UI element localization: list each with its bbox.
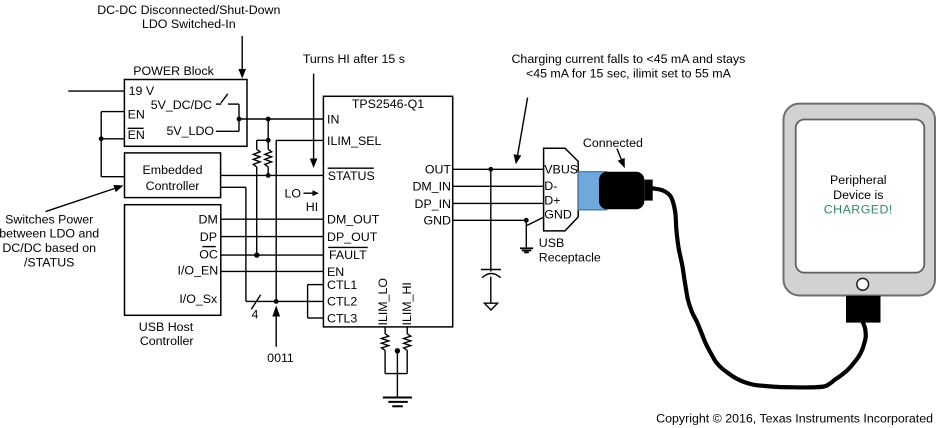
svg-text:D+: D+ bbox=[544, 193, 560, 207]
block U3 Embedded Controller bbox=[125, 153, 221, 198]
arrow from charging note to OUT wire bbox=[514, 98, 528, 165]
wire DP bbox=[221, 236, 324, 238]
svg-text:0011: 0011 bbox=[267, 351, 294, 365]
label USB Host Controller bbox=[139, 320, 194, 348]
resistor R3 ILIM_LO bbox=[382, 327, 389, 374]
svg-text:5V_DC/DC: 5V_DC/DC bbox=[151, 98, 212, 112]
ground GND2 (ILIM resistors) bbox=[383, 398, 412, 407]
tablet screen bbox=[796, 120, 925, 273]
wire ILIM_SEL branch bbox=[276, 140, 323, 301]
IC U1 TPS2546-Q1 bbox=[323, 96, 452, 327]
svg-text:LDO Switched-In: LDO Switched-In bbox=[142, 17, 236, 31]
svg-text:ILIM_SEL: ILIM_SEL bbox=[327, 134, 382, 148]
wire FAULT/OC bbox=[221, 254, 324, 256]
svg-text:EN: EN bbox=[128, 128, 145, 142]
wire 5V to IN bbox=[239, 118, 323, 120]
wire EN-bar bbox=[101, 138, 124, 140]
tablet connector bbox=[846, 296, 881, 323]
pin label FAULT-bar bbox=[328, 247, 368, 261]
node 5V output junction bbox=[237, 117, 242, 122]
note: Charging current falls to <45 mA bbox=[511, 52, 745, 81]
svg-text:Connected: Connected bbox=[583, 136, 643, 150]
svg-text:EN: EN bbox=[327, 265, 344, 279]
wire DM bbox=[221, 218, 324, 220]
node GND junction bbox=[524, 218, 529, 223]
USB receptacle J1 bbox=[544, 148, 579, 231]
svg-text:EN: EN bbox=[128, 107, 145, 121]
svg-text:POWER Block: POWER Block bbox=[133, 64, 214, 78]
svg-text:DC/DC based on: DC/DC based on bbox=[2, 241, 96, 255]
svg-text:CTL2: CTL2 bbox=[327, 295, 357, 309]
switch SW1 (DC/DC disconnect) bbox=[216, 94, 239, 104]
svg-text:USB Host: USB Host bbox=[139, 320, 194, 334]
svg-text:ILIM_LO: ILIM_LO bbox=[376, 278, 390, 326]
arrow from DC-DC note to POWER Block bbox=[238, 36, 246, 79]
svg-text:I/O_EN: I/O_EN bbox=[178, 264, 219, 278]
svg-text:IN: IN bbox=[327, 112, 339, 126]
wire OUT to VBUS bbox=[453, 168, 544, 170]
svg-text:between LDO and: between LDO and bbox=[0, 227, 99, 241]
svg-text:DP: DP bbox=[200, 230, 217, 244]
svg-text:<45 mA for 15 sec, ilimit set: <45 mA for 15 sec, ilimit set to 55 mA bbox=[526, 67, 732, 81]
svg-text:Embedded: Embedded bbox=[143, 163, 203, 177]
wire EN to TPS bbox=[221, 270, 324, 272]
arrow from Turns-HI note to STATUS wire bbox=[310, 74, 318, 168]
wire STATUS bbox=[221, 174, 324, 176]
svg-text:Peripheral: Peripheral bbox=[830, 173, 886, 187]
block U2 POWER Block bbox=[124, 80, 247, 147]
svg-text:STATUS: STATUS bbox=[328, 169, 375, 183]
wire jog to left resistor bbox=[257, 139, 269, 141]
svg-text:TPS2546-Q1: TPS2546-Q1 bbox=[352, 97, 424, 111]
svg-text:DM: DM bbox=[199, 213, 218, 227]
node FAULT pull-up junction bbox=[254, 252, 259, 257]
node OUT cap tap bbox=[488, 167, 493, 172]
block U4 USB Host Controller bbox=[125, 205, 221, 316]
resistor R1 (FAULT pull-up) bbox=[253, 140, 260, 255]
arrow Connected to plug bbox=[617, 149, 625, 169]
wire GND diagonal to receptacle bbox=[526, 217, 543, 226]
svg-text:Turns HI after 15 s: Turns HI after 15 s bbox=[303, 52, 405, 66]
wire EN bbox=[101, 111, 124, 113]
svg-text:OC: OC bbox=[199, 248, 218, 262]
arrow from Switches-Power note to Embedded Controller bbox=[46, 185, 124, 212]
svg-text:DM_IN: DM_IN bbox=[412, 180, 451, 194]
wire 5V_LDO to output node bbox=[216, 130, 239, 132]
svg-text:FAULT: FAULT bbox=[329, 248, 367, 262]
svg-text:19 V: 19 V bbox=[129, 84, 155, 98]
svg-text:GND: GND bbox=[423, 214, 451, 228]
svg-text:CHARGED!: CHARGED! bbox=[824, 203, 893, 217]
note: Switches Power between LDO and DC/DC based on /STATUS bbox=[0, 212, 99, 269]
svg-text:Receptacle: Receptacle bbox=[539, 251, 601, 265]
svg-text:USB: USB bbox=[539, 236, 564, 250]
svg-text:Charging current falls to <45: Charging current falls to <45 mA and sta… bbox=[511, 52, 745, 66]
note LO to HI bbox=[285, 187, 319, 215]
wire EC control bus bbox=[221, 187, 324, 301]
wire DP_IN to D+ bbox=[453, 202, 544, 204]
wire ILIM ground stem bbox=[396, 351, 398, 398]
svg-text:Controller: Controller bbox=[140, 334, 194, 348]
label USB Receptacle bbox=[539, 236, 601, 264]
svg-text:CTL3: CTL3 bbox=[327, 311, 357, 325]
ground GND1 (USB receptacle) bbox=[520, 248, 533, 252]
svg-text:VBUS: VBUS bbox=[544, 162, 578, 176]
svg-text:GND: GND bbox=[544, 208, 572, 222]
svg-text:DP_OUT: DP_OUT bbox=[327, 230, 378, 244]
pin label EN-bar bbox=[128, 128, 145, 142]
wire GND bbox=[453, 219, 527, 221]
svg-text:DP_IN: DP_IN bbox=[415, 197, 452, 211]
wire GND stem bbox=[525, 220, 527, 248]
tablet home button bbox=[857, 278, 869, 290]
svg-text:DM_OUT: DM_OUT bbox=[327, 213, 380, 227]
node ILIM center junction bbox=[395, 348, 400, 353]
tablet body bbox=[784, 104, 936, 296]
node STATUS pull-up junction bbox=[266, 173, 271, 178]
wire resistor join bbox=[385, 373, 407, 375]
svg-text:4: 4 bbox=[251, 308, 258, 322]
svg-text:ILIM_HI: ILIM_HI bbox=[400, 282, 414, 325]
wire 19V input bbox=[68, 90, 124, 92]
svg-text:Copyright © 2016, Texas Instru: Copyright © 2016, Texas Instruments Inco… bbox=[656, 411, 933, 425]
wire CTL bracket bbox=[308, 285, 324, 318]
svg-text:I/O_Sx: I/O_Sx bbox=[179, 292, 218, 306]
capacitor C1 (output) bbox=[481, 169, 501, 303]
ground triangle (output cap) bbox=[484, 303, 497, 310]
wire DM_IN to D- bbox=[453, 185, 544, 187]
node IN wire pull-up tap bbox=[266, 117, 271, 122]
node pull-up top junction bbox=[266, 138, 271, 143]
pin label STATUS-bar bbox=[328, 168, 375, 183]
svg-text:LO: LO bbox=[285, 187, 302, 201]
cable from plug to tablet bbox=[653, 188, 866, 387]
arrow 0011 to bus node bbox=[272, 306, 280, 347]
node bus ILIM_SEL tap bbox=[274, 299, 279, 304]
bus width slash bbox=[251, 295, 260, 309]
svg-text:/STATUS: /STATUS bbox=[24, 255, 74, 269]
svg-text:Device is: Device is bbox=[833, 188, 883, 202]
svg-text:D-: D- bbox=[544, 179, 557, 193]
USB receptacle opening (blue) bbox=[578, 172, 607, 210]
resistor R2 (STATUS pull-up) bbox=[265, 140, 272, 175]
USB plug (black) bbox=[599, 172, 653, 209]
wire pull-up feed vertical bbox=[267, 119, 269, 140]
svg-text:Switches Power: Switches Power bbox=[5, 212, 93, 226]
wire EN chain vertical to Embedded Controller bbox=[101, 112, 124, 177]
svg-text:HI: HI bbox=[306, 200, 318, 214]
note: DC-DC Disconnected/Shut-Down LDO Switched-In bbox=[97, 3, 280, 31]
resistor R4 ILIM_HI bbox=[404, 327, 411, 374]
wire switch output vertical join bbox=[238, 104, 240, 131]
label Peripheral Device is CHARGED! bbox=[824, 173, 893, 217]
svg-text:DC-DC Disconnected/Shut-Down: DC-DC Disconnected/Shut-Down bbox=[97, 3, 280, 17]
svg-text:5V_LDO: 5V_LDO bbox=[167, 124, 215, 138]
node EN-bar junction bbox=[99, 136, 104, 141]
svg-text:OUT: OUT bbox=[425, 163, 452, 177]
svg-text:Controller: Controller bbox=[146, 179, 200, 193]
svg-text:CTL1: CTL1 bbox=[327, 278, 357, 292]
